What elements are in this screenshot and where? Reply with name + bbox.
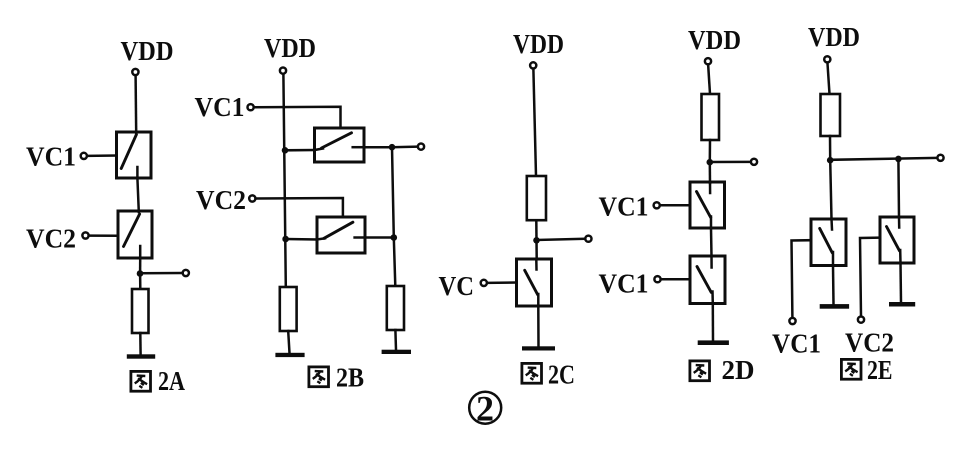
caption 图 2E — [841, 355, 892, 385]
wire VC2 control to S2 gate — [257, 198, 343, 217]
svg-text:VC2: VC2 — [26, 223, 76, 254]
wire node to output terminal — [830, 158, 936, 160]
svg-text:VC2: VC2 — [845, 327, 894, 358]
wire VC2 to S2 — [90, 234, 119, 237]
switch S6 (left, controlled by VC1, fig 2E) — [811, 219, 846, 266]
resistor R3 (right, fig 2B) — [387, 286, 404, 330]
wire S1 right to output node — [364, 146, 392, 149]
wire S6 control to VC1 terminal — [792, 240, 812, 317]
wire S1 to S2 — [137, 178, 138, 212]
terminal VC2 (fig 2E) — [858, 317, 864, 323]
svg-text:2A: 2A — [158, 366, 185, 396]
wire node to output terminal — [392, 145, 417, 148]
svg-text:VC1: VC1 — [599, 191, 649, 222]
switch S7 (right, controlled by VC2, fig 2E) — [880, 217, 914, 263]
node junction (fig 2D output) — [707, 159, 714, 166]
wire node to switch S4 — [709, 162, 712, 183]
wire VDD to resistor R4 — [533, 70, 536, 176]
wire rail to S1 left — [285, 149, 315, 152]
terminal VDD (fig 2B) — [280, 68, 286, 74]
wire VC1 to S5 — [662, 278, 690, 281]
switch S3 (controlled by VC, fig 2C) — [517, 259, 552, 306]
wire S3 to ground — [537, 306, 540, 346]
wire R6 to node — [829, 136, 832, 160]
switch S4 (upper, controlled by VC1, fig 2D) — [690, 182, 725, 228]
wire R1 to ground — [139, 333, 142, 355]
svg-text:VC: VC — [439, 270, 475, 301]
switch S1 (fig 2B, horizontal box) — [315, 128, 365, 162]
wire S7 control to VC2 terminal — [860, 238, 880, 316]
output terminal (fig 2A) — [183, 270, 189, 276]
node junction output (fig 2B) — [389, 144, 396, 151]
figure number badge (circled 2) — [469, 389, 501, 429]
node junction (fig 2A output) — [137, 270, 144, 277]
svg-text:VDD: VDD — [808, 22, 860, 52]
svg-text:VDD: VDD — [513, 29, 564, 59]
wire S6 to ground — [832, 266, 835, 305]
terminal VC2 (fig 2A) — [82, 232, 88, 238]
wire R2 to ground — [288, 331, 289, 353]
ground right (fig 2B) — [382, 350, 411, 354]
svg-text:VDD: VDD — [264, 33, 316, 63]
terminal VC1 (fig 2A) — [81, 153, 87, 159]
wire node to output terminal — [140, 272, 182, 275]
terminal VC2 (fig 2B) — [249, 195, 255, 201]
output terminal (fig 2C) — [585, 236, 591, 242]
ground (fig 2A) — [127, 354, 155, 358]
resistor R1 (fig 2A) — [132, 289, 149, 333]
terminal VDD (fig 2C) — [530, 62, 536, 68]
output terminal (fig 2D) — [751, 159, 757, 165]
caption 图 2D — [690, 355, 755, 385]
svg-text:VC1: VC1 — [599, 268, 649, 299]
svg-text:VC1: VC1 — [195, 91, 245, 122]
wire R4 to node — [535, 220, 538, 240]
node junction (fig 2C output) — [533, 237, 540, 244]
terminal VC1 upper (fig 2D) — [654, 202, 660, 208]
terminal VDD (fig 2A) — [132, 69, 138, 75]
terminal VC (fig 2C) — [481, 280, 487, 286]
caption 图 2C — [522, 360, 575, 390]
svg-text:2C: 2C — [548, 360, 575, 390]
svg-text:2: 2 — [476, 389, 494, 429]
wire VDD to switch S1 — [134, 76, 137, 134]
resistor R2 (left, fig 2B) — [280, 287, 297, 331]
svg-text:2D: 2D — [722, 355, 755, 385]
wire S4 to S5 — [710, 228, 713, 256]
wire VDD rail (left rail, fig 2B) — [283, 75, 285, 287]
terminal VC1 (fig 2E) — [789, 318, 795, 324]
wire right rail vertical — [392, 147, 394, 237]
switch S5 (lower, controlled by VC1, fig 2D) — [690, 256, 725, 304]
resistor R6 (fig 2E) — [821, 94, 841, 136]
node junction right rail (fig 2B) — [391, 234, 398, 241]
svg-text:VC2: VC2 — [196, 184, 246, 215]
node junction right (fig 2E) — [895, 156, 902, 163]
ground (fig 2C) — [522, 346, 555, 350]
wire node to resistor R1 — [139, 274, 142, 290]
terminal VDD (fig 2D) — [705, 58, 711, 64]
caption 图 2B — [309, 363, 364, 393]
svg-text:VDD: VDD — [121, 36, 174, 66]
svg-text:VC1: VC1 — [26, 141, 76, 172]
wire rail to S2 left — [286, 238, 317, 241]
wire VC1 control to S1 gate — [255, 107, 341, 128]
terminal VDD (fig 2E) — [824, 56, 830, 62]
wire VC1 to S1 — [88, 154, 117, 157]
wire R5 to node — [709, 140, 712, 162]
wire VC1 to S4 — [661, 204, 690, 207]
svg-text:2E: 2E — [867, 355, 893, 385]
wire S2 to output node — [139, 258, 142, 274]
svg-text:2B: 2B — [336, 363, 364, 393]
switch S1 (controlled by VC1, fig 2A) — [117, 132, 152, 178]
node junction rail-S1 (fig 2B) — [282, 147, 289, 154]
caption 图 2A — [131, 366, 186, 396]
wire node to output terminal — [537, 239, 585, 240]
output terminal (fig 2E) — [937, 155, 943, 161]
node junction left (fig 2E) — [827, 157, 834, 164]
wire S5 to ground — [712, 304, 715, 341]
wire S7 to ground — [899, 263, 902, 302]
output terminal (fig 2B) — [418, 144, 424, 150]
resistor R4 (fig 2C) — [527, 176, 546, 220]
wire right node to switch S7 — [897, 159, 900, 217]
wire node to switch S3 — [535, 240, 538, 259]
wire VDD to resistor R5 — [708, 66, 710, 95]
wire VDD to resistor R6 — [828, 64, 830, 94]
switch S2 (controlled by VC2, fig 2A) — [118, 211, 152, 258]
svg-text:VC1: VC1 — [772, 328, 821, 359]
node junction rail-S2 (fig 2B) — [282, 236, 289, 243]
terminal VC1 lower (fig 2D) — [654, 276, 660, 282]
switch S2 (fig 2B, horizontal box) — [317, 217, 365, 253]
wire node to output terminal — [710, 161, 750, 164]
wire S2 right to right rail — [365, 236, 394, 239]
resistor R5 (fig 2D) — [702, 94, 720, 140]
ground left (fig 2B) — [275, 353, 304, 357]
ground left (fig 2E) — [820, 304, 849, 309]
wire right rail to resistor R3 — [394, 238, 396, 287]
wire node to switch S6 — [830, 160, 831, 219]
ground right (fig 2E) — [889, 302, 915, 307]
ground (fig 2D) — [698, 340, 729, 345]
terminal VC1 (fig 2B) — [248, 104, 254, 110]
wire R3 to ground — [394, 330, 397, 350]
wire VC to S3 — [488, 281, 517, 284]
svg-text:VDD: VDD — [688, 25, 741, 55]
